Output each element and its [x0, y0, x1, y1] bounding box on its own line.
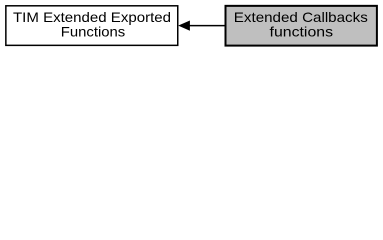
svg-text:functions: functions — [270, 25, 334, 40]
svg-text:TIM Extended Exported: TIM Extended Exported — [13, 10, 171, 25]
svg-text:Functions: Functions — [61, 25, 126, 40]
node TIM Extended Exported Functions — [6, 6, 178, 46]
wire edge line from grey node to left node — [189, 25, 225, 27]
svg-text:Extended Callbacks: Extended Callbacks — [234, 10, 368, 25]
arrowhead pointing at TIM Extended Exported Functions node — [180, 21, 190, 30]
node Extended Callbacks functions (current node, grey fill) — [226, 6, 377, 46]
